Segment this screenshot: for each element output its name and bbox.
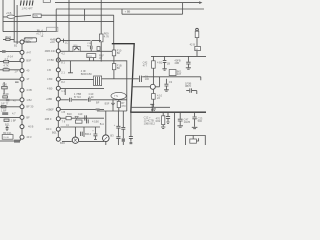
IC pin circle P8	[20, 105, 24, 109]
ground G1	[153, 109, 156, 111]
wire row7	[0, 106, 20, 108]
wire below F1	[196, 38, 198, 48]
svg-text:1.BF: 1.BF	[1, 108, 7, 112]
svg-text:7 S: 7 S	[114, 94, 118, 98]
IC pin circle P5	[20, 77, 24, 81]
ground G7	[161, 127, 165, 128]
Q32 emitter lead	[105, 142, 107, 146]
svg-text:4 1B0: 4 1B0	[92, 119, 99, 123]
wire row4	[0, 69, 20, 71]
IC pin circle Q8c	[56, 107, 60, 111]
svg-text:1 BF: 1 BF	[11, 118, 17, 122]
wire K2 leads	[89, 58, 93, 61]
wire y31.5 line	[3, 31, 57, 33]
Q31 leads	[62, 127, 104, 142]
wire row3	[0, 61, 20, 63]
capacitor C42	[87, 119, 89, 123]
svg-text:10/25: 10/25	[184, 120, 191, 124]
svg-text:4 B0: 4 B0	[47, 77, 53, 81]
wire y9 bus	[56, 8, 204, 10]
wire T1 out right	[102, 78, 139, 80]
svg-text:B0: B0	[117, 66, 121, 70]
svg-text:4 B: 4 B	[47, 68, 51, 72]
rounded box U2	[24, 38, 36, 42]
svg-text:+0C: +0C	[50, 40, 55, 44]
capacitor C51	[163, 61, 167, 69]
fuse F1 box	[195, 31, 199, 37]
wire below R51	[152, 68, 154, 84]
svg-text:1 B2: 1 B2	[26, 98, 32, 102]
resistor R51	[152, 61, 156, 68]
box above y31 line	[47, 27, 58, 31]
capacitor C11 box	[2, 86, 8, 89]
IC pin circle Q7c	[56, 97, 60, 101]
svg-text:1B: 1B	[167, 61, 170, 65]
IC pin circle P11	[20, 135, 24, 139]
svg-text:+5.B: +5.B	[6, 11, 12, 15]
resistor R13 box	[3, 69, 9, 71]
svg-text:40 3: 40 3	[26, 135, 32, 139]
svg-text:7 8: 7 8	[62, 119, 66, 123]
capacitor C54 horizontal	[186, 88, 197, 94]
wire row q7	[60, 99, 126, 101]
wire y21.5 bus	[3, 21, 114, 23]
svg-text:1B: 1B	[75, 46, 78, 50]
svg-text:B 710: B 710	[74, 95, 81, 99]
transistor Q51	[150, 84, 155, 89]
svg-text:8.2: 8.2	[61, 80, 65, 84]
wire vertical x69	[68, 0, 70, 51]
bus y56 right	[151, 55, 206, 57]
IC pin circle Q5c	[56, 77, 60, 81]
wire row5	[0, 78, 20, 80]
ground G6	[192, 127, 198, 128]
svg-text:40B 0: 40B 0	[45, 117, 52, 121]
wire row q2	[60, 50, 113, 52]
connector arrow top right	[199, 1, 202, 4]
wire row q6	[60, 88, 104, 90]
component dark C72 foot	[122, 138, 125, 141]
svg-text:B07: B07	[26, 40, 31, 44]
svg-text:1C: 1C	[65, 40, 68, 44]
transistor Q31	[72, 137, 78, 143]
box FL1	[169, 70, 176, 76]
thick signal trace: verticals down from y15/y21 buses	[113, 15, 115, 44]
wire below R61	[162, 125, 164, 127]
wire vertical x4 drop	[3, 82, 5, 94]
svg-text:BF: BF	[96, 100, 100, 104]
ground G4	[164, 90, 169, 91]
ground G5	[177, 126, 183, 127]
wire to pin11	[19, 139, 22, 141]
wire vertical x174 to bottom	[174, 112, 176, 145]
big shield box	[60, 61, 127, 111]
capacitor C73 chain below bus corner	[129, 112, 133, 142]
resistor R41 box	[66, 117, 71, 120]
label grey blob mid	[15, 81, 19, 83]
resistor R2 box	[33, 14, 41, 18]
svg-text:4 0B: 4 0B	[26, 88, 32, 92]
svg-text:477: 477	[143, 63, 148, 67]
component D11 mark	[2, 50, 6, 53]
wire right of C30	[142, 77, 201, 80]
resistor R61	[162, 116, 165, 125]
svg-text:4.2: 4.2	[61, 52, 65, 56]
IC pin circle Q3c	[56, 58, 60, 62]
resistor R16 box	[4, 119, 9, 121]
wire vertical x122	[121, 9, 123, 14]
wire below Q51	[152, 89, 154, 93]
wire row q5	[60, 78, 93, 80]
svg-text:B2: B2	[14, 43, 18, 47]
wire y107.3 rail	[131, 106, 170, 108]
wire x105.8 drop	[105, 111, 107, 135]
svg-text:1 B: 1 B	[61, 110, 65, 114]
svg-text:B0: B0	[117, 51, 121, 55]
connector J2 top right	[196, 28, 199, 31]
wire vertical x14	[13, 0, 15, 40]
wire x114 below R6	[113, 44, 115, 64]
wire row q8	[60, 109, 104, 111]
pin column line right x58.3	[57, 40, 59, 139]
wire vertical x56.6	[55, 9, 57, 31]
wire drop x65	[64, 89, 66, 95]
component marks on q8	[96, 108, 100, 110]
svg-text:B3F: B3F	[105, 102, 110, 106]
capacitor C52	[186, 62, 190, 67]
inner box K3	[190, 139, 197, 143]
diode D21 box	[73, 46, 80, 51]
component dark row6	[6, 99, 9, 101]
capacitor C62 lead	[194, 112, 196, 116]
component dark row11	[14, 140, 20, 143]
IC pin circle Q4c	[56, 68, 60, 72]
svg-text:B01: B01	[52, 130, 57, 134]
IC pin circle Q9c	[56, 117, 60, 121]
IC pin circle P10	[20, 125, 24, 129]
svg-text:B0F: B0F	[26, 58, 31, 62]
capacitor C52 lead	[187, 56, 189, 61]
pin column line left x22	[21, 42, 23, 137]
capacitor C12	[6, 126, 9, 131]
svg-text:407: 407	[177, 72, 182, 76]
IC pin circle Q1c	[56, 38, 60, 42]
capacitor C62	[192, 117, 196, 127]
wire row11	[0, 140, 14, 142]
wire Q51 base from thick trace	[132, 86, 159, 88]
svg-text:2.4F: 2.4F	[89, 95, 95, 99]
IC pin circle P3	[20, 58, 24, 62]
resistor R31	[117, 101, 120, 107]
svg-text:1 PG 4FT: 1 PG 4FT	[22, 7, 34, 11]
component R15 box	[1, 106, 6, 108]
wire drop x84	[83, 127, 85, 137]
thick signal trace step	[112, 44, 206, 113]
diode D41	[75, 116, 78, 119]
wire row q1 to cap	[60, 39, 101, 41]
svg-text:40B: 40B	[174, 61, 179, 65]
capacitor C71 chain	[116, 111, 120, 145]
svg-text:2 1: 2 1	[61, 70, 65, 74]
row y121 components: resistor R42	[75, 120, 82, 123]
svg-text:47 B0: 47 B0	[47, 58, 54, 62]
svg-text:1 F: 1 F	[14, 70, 18, 74]
resistor R55 box	[195, 46, 201, 50]
svg-text:1.1: 1.1	[61, 89, 65, 93]
capacitor C21	[90, 40, 92, 51]
capacitor C61 lead	[179, 112, 181, 119]
svg-text:B10: B10	[67, 112, 72, 116]
svg-text:BF: BF	[26, 115, 30, 119]
svg-text:0B7F: 0B7F	[185, 84, 192, 88]
svg-text:100: 100	[145, 77, 150, 81]
capacitor C22 series	[70, 98, 72, 102]
box K1	[2, 135, 13, 140]
wire right jog y14	[122, 13, 183, 15]
wire row1 jog	[3, 39, 20, 42]
lead into K3	[193, 136, 198, 142]
wire R55 to bus	[196, 51, 198, 57]
resistor R5 on x101	[99, 34, 103, 42]
svg-text:4MB 44C: 4MB 44C	[45, 49, 56, 53]
resistor R6 on thick trace vertical	[112, 50, 115, 56]
capacitor C63	[166, 117, 170, 122]
capacitor C23 series	[88, 98, 90, 102]
connector TP2 arrow	[150, 104, 154, 109]
resistor R12 box	[4, 60, 9, 63]
svg-text:+0B0: +0B0	[46, 97, 53, 101]
svg-text:78V: 78V	[34, 16, 39, 18]
wire vertical x101	[100, 0, 102, 62]
capacitor C30 series	[140, 76, 142, 82]
wire row q9	[60, 117, 104, 119]
wire row8	[0, 117, 20, 119]
svg-text:4.7: 4.7	[12, 112, 16, 116]
resistor R7	[112, 64, 115, 70]
wire row2	[0, 51, 20, 53]
capacitor C53	[164, 84, 168, 89]
IC pin circle Q2c	[56, 49, 60, 53]
component box fragment top edge	[43, 0, 50, 2]
chain x164.6 lead	[164, 56, 166, 60]
wire x114 below R7	[113, 70, 115, 79]
resistor R8 small	[97, 47, 100, 51]
svg-text:C30: C30	[2, 83, 7, 87]
wire vertical x84.6	[84, 9, 86, 21]
inductor L2 oval	[7, 15, 15, 18]
chain x166.4 from wire y78.8	[165, 79, 167, 84]
IF transformer T1	[94, 76, 102, 86]
test point TP1	[68, 61, 73, 73]
IC pin circle P1	[20, 40, 24, 44]
ground G2	[162, 69, 166, 70]
svg-text:42 B: 42 B	[190, 42, 196, 46]
svg-text:BF 30: BF 30	[26, 105, 33, 109]
svg-text:A47: A47	[26, 50, 31, 54]
capacitor C61	[178, 119, 183, 125]
wire vertical x17	[16, 5, 18, 44]
svg-text:04 C: 04 C	[46, 127, 52, 131]
svg-text:C3: C3	[169, 80, 173, 84]
X1 leads	[113, 99, 119, 111]
component dark row8	[2, 112, 8, 115]
svg-text:4 B2: 4 B2	[157, 61, 163, 65]
component dark C73 foot	[130, 142, 133, 144]
capacitor C43	[81, 132, 83, 136]
IC pin circle P6	[20, 88, 24, 92]
capacitor C44 polarized	[93, 127, 97, 140]
wire left border vertical	[2, 0, 4, 32]
wire row6	[0, 99, 20, 101]
svg-text:R22: R22	[156, 119, 161, 123]
component row6 box	[3, 96, 8, 98]
wire y2.5 top bus	[55, 2, 199, 4]
wire row q10	[60, 126, 100, 128]
tick on q1 wire	[63, 39, 65, 43]
resistor R61 lead	[162, 112, 164, 116]
chain X: lead from bus	[152, 56, 154, 60]
svg-text:500: 500	[198, 119, 203, 123]
ground G3	[186, 68, 191, 69]
IC pin circle Q6c	[56, 86, 60, 90]
svg-text:40 B: 40 B	[28, 125, 34, 129]
wire drop x159.6	[159, 77, 161, 87]
capacitor C63 lead	[167, 112, 169, 116]
svg-text:4.7K: 4.7K	[104, 34, 110, 38]
coil L1	[20, 0, 33, 5]
svg-text:B21: B21	[5, 122, 10, 126]
svg-text:B0FF1B0: B0FF1B0	[81, 72, 93, 76]
svg-text:B3: B3	[110, 134, 114, 138]
IC pin circle P9	[20, 115, 24, 119]
svg-text:10B0 B12: 10B0 B12	[144, 122, 156, 126]
ground G8	[166, 122, 169, 123]
IC pin circle P2	[20, 50, 24, 54]
svg-text:0.F 77: 0.F 77	[1, 102, 9, 106]
resistor R52	[152, 94, 156, 100]
svg-text:A-14: A-14	[7, 55, 13, 59]
IC pin circle P7	[20, 98, 24, 102]
wire vertical x182.6	[182, 3, 184, 15]
svg-text:+ BB: + BB	[125, 10, 131, 14]
ellipse X1	[111, 92, 126, 99]
IC pin circle P4	[20, 69, 24, 73]
IC pin circle Q10c	[56, 127, 60, 131]
diode D31	[111, 103, 114, 105]
bottom right box	[186, 136, 206, 146]
svg-text:410: 410	[78, 112, 83, 116]
wire below R52	[152, 99, 154, 107]
svg-text:4.7: 4.7	[13, 98, 17, 102]
svg-text:B.A: B.A	[100, 122, 104, 126]
svg-text:4 B0: 4 B0	[47, 86, 53, 90]
wire y15 bus	[3, 15, 114, 17]
svg-text:+0B0F: +0B0F	[46, 107, 54, 111]
IC pin circle Q11c	[56, 137, 60, 141]
svg-text:B012: B012	[85, 132, 92, 136]
capacitor C41	[85, 115, 87, 120]
svg-text:470: 470	[121, 104, 126, 108]
relay K2 box	[87, 54, 96, 58]
svg-text:1N 0B: 1N 0B	[3, 137, 9, 139]
transistor Q32	[103, 135, 110, 142]
capacitor C72 chain	[121, 111, 125, 138]
